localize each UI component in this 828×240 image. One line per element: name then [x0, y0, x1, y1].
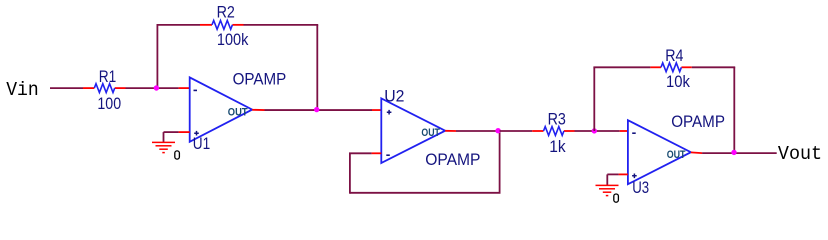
wire U3 plus to ground [607, 173, 618, 175]
svg-text:U2: U2 [384, 88, 404, 106]
ground symbol 0 at U3 [596, 185, 619, 195]
resistor R2 pin left [200, 24, 212, 26]
wire vertical junction up to R4 [593, 67, 595, 131]
junction node R1/R2/U1 input [154, 85, 159, 90]
wire U2 feedback left vertical [349, 153, 351, 193]
resistor R4 body [661, 63, 681, 72]
svg-text:OUT: OUT [421, 127, 440, 139]
wire U2 output junction to R3 [500, 130, 533, 132]
junction node U3 output [731, 150, 736, 155]
pin U1 output [252, 109, 264, 111]
wire U1 plus to ground [164, 131, 179, 133]
svg-text:OPAMP: OPAMP [233, 70, 287, 88]
resistor R3 pin right [564, 130, 575, 132]
wire R1 to junction to U1 inverting input [126, 87, 179, 89]
wire U2 feedback right vertical [499, 131, 501, 193]
pin U3 output [691, 151, 702, 154]
junction node U2 output [495, 128, 500, 133]
svg-text:1k: 1k [549, 138, 566, 156]
pin U2 inverting input [372, 152, 382, 154]
resistor R1 body [94, 84, 114, 93]
svg-text:R4: R4 [665, 47, 683, 65]
pin U3 noninverting input [619, 173, 628, 175]
op-amp U3 body [628, 120, 691, 184]
ground symbol 0 at U1 [152, 142, 175, 152]
pin U2 output [445, 130, 456, 132]
op-amp U3 plus sign [632, 174, 637, 179]
wire U3 output to Vout [702, 152, 777, 154]
svg-text:OPAMP: OPAMP [425, 151, 480, 169]
resistor R2 body [212, 20, 232, 29]
wire R4 top left segment [593, 66, 650, 68]
resistor R4 pin left [650, 66, 661, 68]
svg-text:U1: U1 [193, 135, 210, 153]
label 0 at U1 ground [175, 151, 180, 159]
label 0 at U3 ground [614, 194, 619, 202]
wire U1 output to junction to U2 [265, 109, 373, 111]
resistor R3 body [544, 127, 564, 136]
pin U3 inverting input [620, 130, 628, 132]
wire U2 output to junction [456, 130, 499, 132]
wire vertical R2 down to U1 output [316, 25, 318, 110]
wire vertical junction up to R2 [156, 25, 158, 88]
junction node R3/R4/U3 input [592, 128, 597, 133]
svg-text:Vin: Vin [6, 79, 39, 101]
resistor R1 pin right [115, 87, 126, 89]
pin U1 noninverting input [179, 131, 190, 133]
resistor R1 pin left [83, 87, 94, 89]
op-amp U1 minus sign [194, 89, 198, 91]
resistor R3 pin left [532, 130, 543, 132]
junction node U1 output feedback [314, 107, 319, 112]
svg-text:OPAMP: OPAMP [671, 113, 725, 131]
op-amp U2 minus sign [386, 154, 390, 156]
op-amp U2 body [381, 98, 445, 163]
svg-text:Vout: Vout [778, 143, 822, 165]
wire R2 top right segment [244, 24, 319, 26]
pin U2 noninverting input [372, 109, 381, 111]
svg-text:R2: R2 [217, 3, 235, 21]
op-amp U1 body [190, 77, 253, 141]
pin U1 inverting input [179, 87, 190, 89]
wire U2 feedback to inverting input [349, 152, 372, 154]
resistor R2 pin right [232, 24, 243, 26]
wire U2 feedback bottom [350, 192, 501, 194]
resistor R4 pin right [681, 66, 691, 68]
svg-text:R3: R3 [548, 111, 566, 129]
op-amp U1 plus sign [194, 131, 199, 136]
wire R3 to junction to U3 inverting input [575, 130, 620, 132]
wire R2 top left segment [157, 24, 201, 26]
wire Vin to R1 [50, 87, 83, 89]
svg-text:OUT: OUT [667, 149, 686, 161]
svg-text:100: 100 [97, 95, 121, 113]
svg-text:R1: R1 [99, 68, 117, 86]
wire R4 top right segment [692, 66, 735, 68]
op-amp U3 minus sign [632, 132, 636, 134]
svg-text:OUT: OUT [228, 107, 248, 119]
wire vertical R4 down to U3 output [733, 67, 735, 153]
svg-text:10k: 10k [666, 73, 691, 91]
op-amp U2 plus sign [387, 110, 392, 115]
svg-text:100k: 100k [217, 31, 249, 49]
svg-text:U3: U3 [632, 179, 649, 197]
